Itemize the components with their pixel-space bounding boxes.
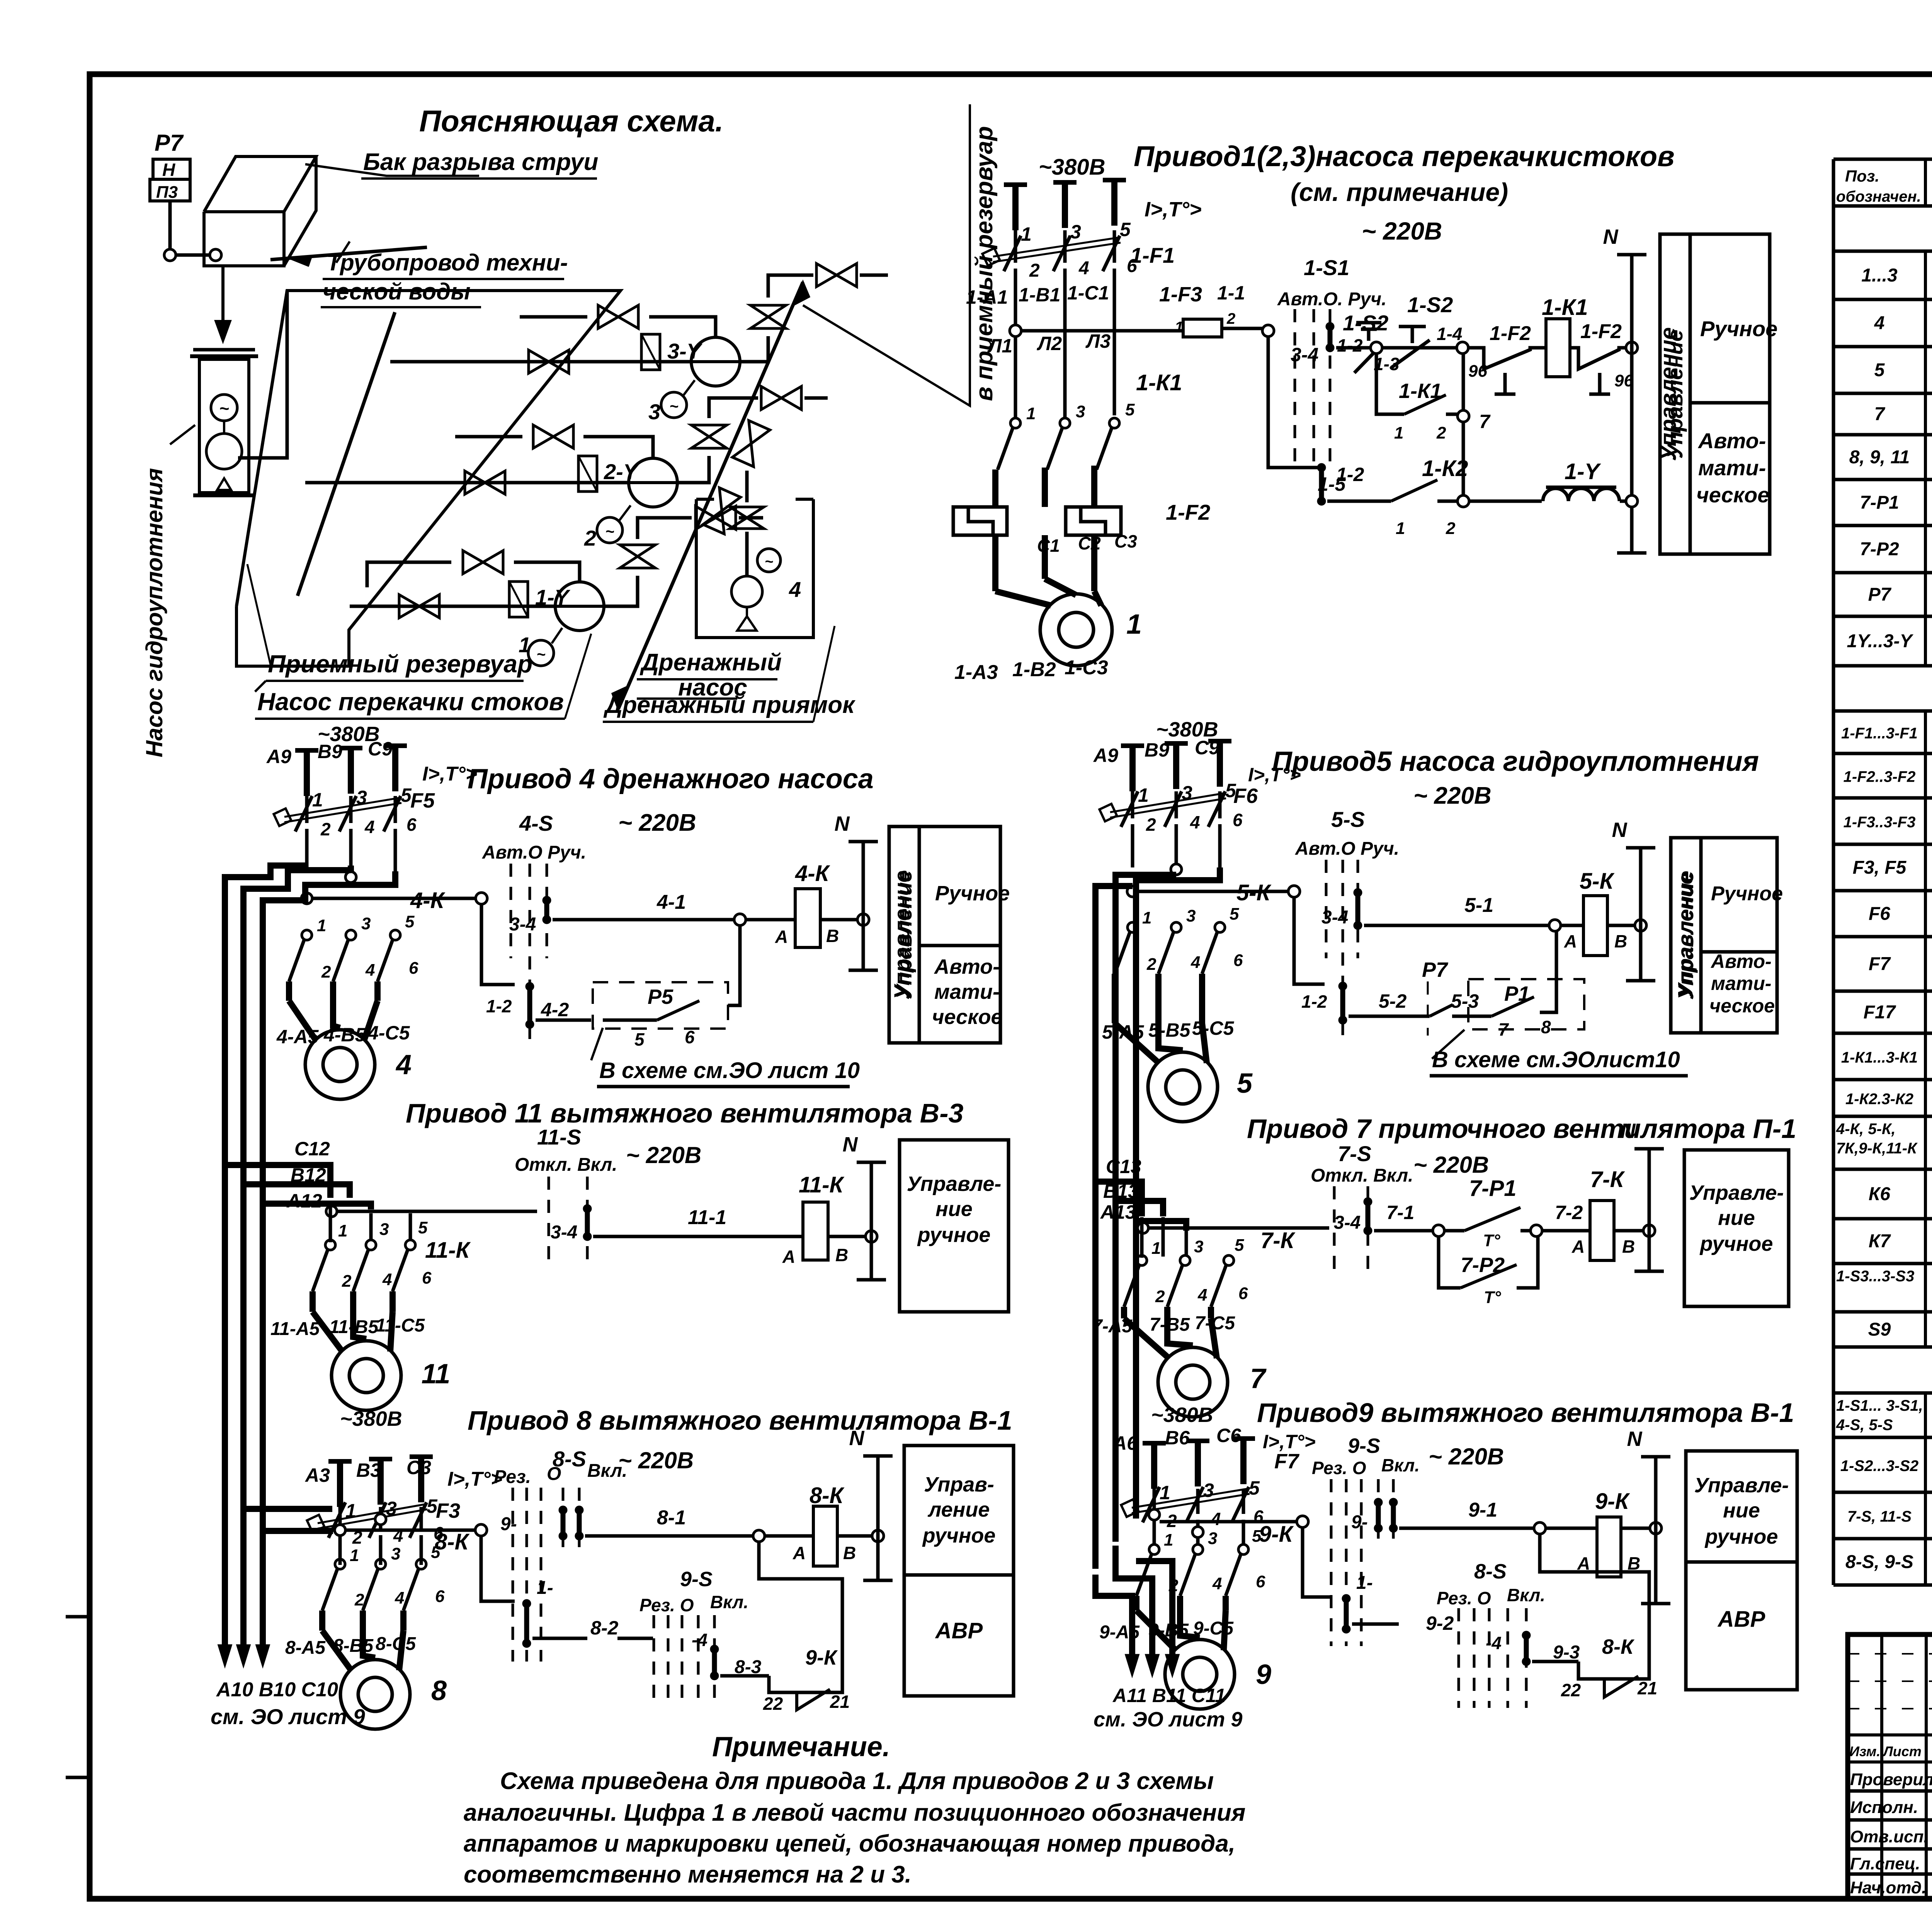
svg-text:9-: 9- (1351, 1512, 1368, 1532)
svg-text:2: 2 (1446, 519, 1456, 538)
svg-text:5: 5 (1235, 1236, 1244, 1255)
svg-text:4: 4 (364, 817, 375, 837)
components table grid (1833, 158, 1932, 161)
svg-text:4: 4 (1190, 812, 1200, 832)
svg-text:Трубопровод техни-: Трубопровод техни- (327, 250, 568, 276)
svg-text:5: 5 (634, 1029, 645, 1049)
svg-text:В13: В13 (1103, 1180, 1139, 1202)
svg-text:А: А (793, 1543, 806, 1563)
svg-text:С9: С9 (368, 738, 393, 760)
svg-text:6: 6 (1233, 810, 1243, 830)
tank Бак разрыва струи (3D box) (204, 212, 284, 266)
receiving reservoir slab (oblique box) (236, 291, 621, 666)
svg-text:1: 1 (1164, 1531, 1173, 1549)
contacts on block9 selector (1374, 1498, 1383, 1507)
svg-text:6: 6 (685, 1027, 695, 1047)
svg-text:А9: А9 (266, 746, 291, 767)
svg-text:22: 22 (1561, 1680, 1581, 1700)
svg-text:ческое: ческое (1709, 995, 1775, 1017)
svg-text:2: 2 (1155, 1287, 1165, 1306)
svg-text:7-2: 7-2 (1555, 1202, 1583, 1223)
svg-text:Примечание.: Примечание. (712, 1731, 890, 1762)
svg-text:1: 1 (1026, 404, 1036, 423)
control feed wire with fuse 1-F3 (1021, 329, 1183, 333)
svg-text:3: 3 (1076, 402, 1085, 421)
svg-text:П3: П3 (156, 183, 178, 202)
pump 3 discharge riser and valve (649, 317, 716, 337)
feed tap junction (1010, 325, 1021, 337)
svg-text:Бак разрыва струи: Бак разрыва струи (363, 149, 598, 175)
solenoid valve 1-Y (509, 582, 528, 617)
svg-text:7: 7 (1874, 404, 1886, 425)
svg-text:F5: F5 (410, 789, 435, 812)
svg-text:1-F2: 1-F2 (1166, 500, 1210, 524)
N bar block11 (870, 1162, 873, 1280)
svg-text:F3, F5: F3, F5 (1853, 857, 1907, 878)
svg-text:8: 8 (431, 1675, 447, 1706)
slab inner edge 2 (238, 291, 287, 458)
svg-text:11-К: 11-К (425, 1238, 471, 1263)
svg-text:С2: С2 (1078, 533, 1101, 553)
svg-text:9-2: 9-2 (1426, 1612, 1454, 1634)
pump 2 suction pipe with valve (305, 481, 628, 485)
svg-text:1-: 1- (1356, 1573, 1373, 1593)
feeder arrows A11 B11 C11 (1095, 1575, 1132, 1665)
svg-text:5-3: 5-3 (1451, 990, 1479, 1012)
pump 2 motor (597, 517, 622, 543)
svg-text:1-S1: 1-S1 (1304, 255, 1349, 280)
control mode box block8 (manual + AVR) (904, 1446, 1014, 1696)
thermal elements 1-F2 (992, 469, 998, 507)
pump 1 suction pipe with valve (350, 605, 556, 608)
motor symbol of hydro pump (211, 395, 237, 421)
wires to motor 11 (310, 1291, 316, 1312)
wire 8-1 (585, 1534, 753, 1538)
svg-text:1: 1 (1126, 609, 1142, 640)
svg-text:1: 1 (1160, 1482, 1170, 1503)
svg-text:6: 6 (409, 959, 418, 978)
drain pump 4 (731, 576, 762, 607)
svg-text:6: 6 (1233, 951, 1243, 970)
svg-text:7-Р2: 7-Р2 (1860, 539, 1899, 560)
contact 3-4 block4 (543, 896, 551, 905)
svg-text:Н: Н (162, 160, 175, 180)
svg-text:4-S, 5-S: 4-S, 5-S (1836, 1417, 1893, 1434)
svg-text:1: 1 (1394, 423, 1403, 442)
svg-text:4: 4 (395, 1049, 412, 1080)
svg-text:N: N (1603, 225, 1619, 248)
svg-text:В: В (843, 1543, 856, 1563)
wire 5-2 and float contact P7 (1349, 1015, 1406, 1018)
svg-text:С13: С13 (1106, 1156, 1141, 1177)
svg-text:3: 3 (361, 914, 371, 933)
svg-text:5: 5 (1230, 905, 1239, 923)
svg-text:Ручное: Ручное (1711, 883, 1783, 905)
valves on rising main (703, 488, 740, 534)
svg-text:аппаратов и маркировки цепей: аппаратов и маркировки цепей, обозначающ… (464, 1830, 1235, 1857)
svg-text:АВР: АВР (935, 1618, 983, 1643)
svg-text:9-К: 9-К (1259, 1522, 1294, 1547)
block1 phase stub L3 (1111, 180, 1117, 226)
svg-text:3-4: 3-4 (1291, 344, 1318, 366)
svg-text:2: 2 (1226, 310, 1235, 327)
contact 3-4 block5 (1354, 888, 1362, 897)
block7 feed line (1138, 1223, 1148, 1233)
svg-text:ручное: ручное (917, 1223, 991, 1247)
svg-text:4: 4 (1078, 258, 1089, 279)
branch to lower rung (1268, 337, 1321, 468)
wires to motor 9 (1133, 1596, 1139, 1611)
N bar block5 (1639, 848, 1643, 981)
svg-text:8-2: 8-2 (590, 1617, 618, 1639)
wire 5-1 (1364, 924, 1549, 927)
svg-text:~: ~ (765, 554, 773, 570)
contact 3-4 block7 (1364, 1197, 1372, 1206)
contact 1-2 block4 (526, 982, 534, 991)
svg-text:I>,Т°>: I>,Т°> (1248, 764, 1301, 786)
svg-text:Управле-: Управле- (1694, 1474, 1789, 1497)
svg-text:Отв.исп.: Отв.исп. (1850, 1827, 1929, 1846)
svg-text:7К,9-К,11-К: 7К,9-К,11-К (1836, 1140, 1918, 1157)
drain pit tank (696, 499, 813, 638)
breaker F5 (305, 796, 309, 823)
svg-text:1-2: 1-2 (1301, 992, 1327, 1012)
svg-text:3: 3 (1186, 906, 1196, 925)
svg-text:5-К: 5-К (1236, 880, 1272, 905)
svg-text:1-К1...3-К1: 1-К1...3-К1 (1841, 1049, 1918, 1066)
block9 feed taps (1149, 1509, 1160, 1520)
svg-text:~ 220В: ~ 220В (1362, 217, 1442, 245)
wires to motor 1 (992, 535, 998, 591)
block1 phase stub L2 (1062, 182, 1068, 228)
svg-text:1-В1: 1-В1 (1019, 284, 1060, 306)
svg-text:6: 6 (435, 1587, 445, 1606)
svg-text:-4: -4 (1486, 1633, 1502, 1653)
svg-text:1-С1: 1-С1 (1067, 282, 1109, 304)
svg-text:N: N (1627, 1427, 1643, 1451)
svg-text:см. ЭО лист 9: см. ЭО лист 9 (1094, 1708, 1242, 1731)
svg-text:1: 1 (1396, 519, 1405, 538)
svg-text:Управ-: Управ- (924, 1473, 994, 1496)
svg-text:2: 2 (1146, 815, 1156, 835)
svg-text:Л1: Л1 (987, 335, 1012, 357)
feeder bend into block11 (225, 1165, 330, 1198)
svg-text:1-2: 1-2 (486, 996, 512, 1016)
block9 contactor contacts 9-K (1149, 1544, 1159, 1554)
svg-text:В12: В12 (291, 1164, 326, 1186)
svg-text:1-: 1- (537, 1578, 553, 1598)
svg-text:К6: К6 (1869, 1184, 1891, 1204)
svg-text:11-С5: 11-С5 (376, 1315, 425, 1336)
block4 lower branch (481, 904, 515, 985)
svg-text:1-4: 1-4 (1437, 324, 1462, 344)
solenoid valve 3-Y (641, 334, 660, 370)
svg-text:2: 2 (342, 1272, 352, 1291)
branch to drain pit (690, 516, 694, 520)
breaker 1-F1 (1014, 230, 1017, 263)
svg-text:8-S, 9-S: 8-S, 9-S (1845, 1552, 1913, 1572)
svg-text:1-В2: 1-В2 (1012, 658, 1056, 681)
svg-text:8-С5: 8-С5 (376, 1634, 416, 1654)
svg-text:С3: С3 (1114, 531, 1137, 551)
svg-text:9-К: 9-К (1595, 1489, 1630, 1514)
svg-text:I>,Т°>: I>,Т°> (1263, 1431, 1316, 1452)
feeder arrows A10 B10 C10 (219, 1645, 231, 1665)
svg-text:6: 6 (1256, 1572, 1265, 1591)
svg-text:(см. примечание): (см. примечание) (1291, 178, 1508, 206)
svg-text:4: 4 (1190, 953, 1200, 972)
svg-text:21: 21 (1637, 1678, 1657, 1698)
wire 5-3 and contact P1 in dashed box (1452, 1015, 1492, 1018)
hydro-seal pump unit (193, 348, 255, 352)
svg-text:F3: F3 (436, 1499, 460, 1522)
svg-text:3-4: 3-4 (1334, 1213, 1361, 1233)
block9 phase stubs (1151, 1443, 1157, 1489)
breaker F3 (338, 1507, 342, 1529)
svg-text:АВР: АВР (1717, 1607, 1765, 1632)
breaker F6 (1131, 791, 1134, 818)
svg-text:3: 3 (1070, 221, 1081, 243)
contact 1-2 block5 (1338, 982, 1347, 990)
svg-text:7-S, 11-S: 7-S, 11-S (1847, 1508, 1912, 1525)
motor M7 (1158, 1347, 1228, 1417)
block5 phase stubs (1129, 746, 1136, 791)
svg-text:1: 1 (350, 1546, 359, 1565)
svg-text:F7: F7 (1869, 954, 1891, 975)
svg-text:S9: S9 (1868, 1320, 1891, 1340)
svg-text:Авто-: Авто- (1697, 429, 1766, 453)
pump 1 to header check valve (604, 576, 638, 606)
dashed box P5 (level switch) (593, 982, 728, 1029)
selector contact 1-2 lower (1317, 463, 1326, 472)
block8 lower branch via selector 9-S (481, 1536, 515, 1601)
svg-text:мати-: мати- (1711, 973, 1771, 994)
svg-text:F17: F17 (1864, 1002, 1896, 1023)
svg-text:2: 2 (1436, 423, 1446, 442)
svg-text:7-S: 7-S (1338, 1141, 1371, 1166)
main pump 2 (629, 458, 677, 507)
block9 lower branch (1303, 1527, 1331, 1597)
svg-text:3: 3 (391, 1544, 400, 1563)
svg-text:4: 4 (382, 1270, 392, 1289)
svg-text:11-S: 11-S (537, 1125, 581, 1149)
svg-text:1-С3: 1-С3 (1065, 656, 1108, 679)
svg-text:Авт.О Руч.: Авт.О Руч. (1295, 838, 1399, 859)
svg-text:А11 В11 С11: А11 В11 С11 (1112, 1685, 1226, 1706)
svg-text:1-А3: 1-А3 (954, 661, 998, 684)
pump circle of hydro pump (206, 434, 242, 469)
svg-text:Проверил: Проверил (1850, 1770, 1932, 1789)
svg-text:Т°: Т° (1483, 1231, 1500, 1250)
svg-text:11-А5: 11-А5 (270, 1319, 320, 1339)
svg-text:3-Y: 3-Y (667, 339, 703, 363)
svg-text:Схема приведена для привода: Схема приведена для привода 1. Для приво… (500, 1768, 1214, 1794)
svg-text:~ 220В: ~ 220В (618, 810, 696, 836)
svg-text:Вкл.: Вкл. (1507, 1585, 1545, 1605)
svg-text:Ручное: Ручное (1700, 316, 1777, 341)
N bar block9 (1654, 1457, 1658, 1604)
svg-text:С1: С1 (1037, 536, 1060, 556)
svg-text:1-А1: 1-А1 (966, 286, 1008, 308)
svg-text:3-4: 3-4 (509, 914, 536, 935)
fuse 1-F3 (1183, 319, 1222, 337)
drain pump 4 motor (757, 549, 781, 572)
title block left columns (1880, 1634, 1883, 1899)
svg-text:4-S: 4-S (519, 811, 553, 835)
svg-text:Насос перекачки стоков: Насос перекачки стоков (257, 688, 564, 716)
svg-text:1: 1 (1142, 908, 1151, 927)
block11 contactor contacts 11-K (325, 1240, 335, 1250)
svg-text:1: 1 (338, 1221, 347, 1240)
svg-text:7: 7 (1479, 411, 1491, 432)
wires to motor 4 (286, 981, 292, 1001)
svg-text:1...3: 1...3 (1861, 265, 1898, 286)
svg-text:А13: А13 (1100, 1201, 1136, 1223)
pump 3 discharge check valve to riser pipe (740, 336, 768, 362)
control mode box block1 (1660, 234, 1770, 554)
svg-text:7-К: 7-К (1260, 1228, 1296, 1253)
contacts on 8-S (559, 1506, 567, 1514)
svg-text:Авт.О. Руч.: Авт.О. Руч. (1277, 289, 1386, 310)
svg-text:А: А (1571, 1236, 1585, 1257)
svg-text:1-К1: 1-К1 (1136, 370, 1182, 395)
feeder to blocks 7/9 from block5 (1095, 886, 1133, 1569)
svg-text:~ 220В: ~ 220В (1413, 782, 1492, 809)
svg-text:4: 4 (1211, 1509, 1221, 1529)
svg-text:7-К: 7-К (1590, 1167, 1625, 1192)
svg-text:8: 8 (1541, 1017, 1551, 1037)
block5 contactor contacts 5-K (1128, 922, 1138, 932)
title block signature rows (1848, 1789, 1932, 1793)
svg-text:1-S1... 3-S1,: 1-S1... 3-S1, (1836, 1397, 1923, 1414)
svg-text:В схеме см.ЭО лист 10: В схеме см.ЭО лист 10 (599, 1058, 860, 1083)
svg-text:7: 7 (1498, 1019, 1509, 1039)
svg-text:N: N (1612, 818, 1628, 842)
svg-text:1-К2: 1-К2 (1422, 456, 1468, 481)
svg-text:ческое: ческое (932, 1005, 1003, 1029)
svg-text:1-S3...3-S3: 1-S3...3-S3 (1836, 1268, 1914, 1285)
svg-text:2: 2 (321, 963, 331, 981)
svg-text:Управле-: Управле- (907, 1172, 1002, 1196)
svg-text:2-Y: 2-Y (604, 459, 639, 484)
svg-text:8-1: 8-1 (657, 1507, 686, 1529)
svg-text:К7: К7 (1869, 1231, 1891, 1252)
svg-text:5-С5: 5-С5 (1192, 1017, 1235, 1039)
svg-text:ручное: ручное (922, 1524, 996, 1547)
wires to motor 7 (1121, 1307, 1127, 1318)
svg-text:1-F2..3-F2: 1-F2..3-F2 (1844, 769, 1916, 786)
control mode box block5 (1671, 838, 1777, 1033)
svg-text:Ручное: Ручное (935, 882, 1010, 905)
svg-text:~ 220В: ~ 220В (626, 1142, 701, 1168)
block8 phase stubs (337, 1461, 343, 1507)
svg-text:4: 4 (1197, 1286, 1207, 1304)
svg-text:9-S: 9-S (1348, 1434, 1380, 1458)
svg-text:1-Y: 1-Y (1565, 459, 1602, 484)
svg-text:Привод9 вытяжного вентилятора: Привод9 вытяжного вентилятора В-1 (1257, 1398, 1794, 1428)
svg-text:мати-: мати- (1698, 456, 1766, 480)
svg-text:5: 5 (1249, 1477, 1260, 1499)
svg-text:1: 1 (317, 916, 326, 935)
slab inner edge 1 (298, 312, 395, 596)
pump 3 suction pipe with valve (390, 360, 692, 364)
svg-text:5-В5: 5-В5 (1148, 1019, 1191, 1041)
svg-text:О: О (547, 1464, 561, 1484)
svg-text:Л3: Л3 (1085, 330, 1111, 352)
svg-text:4-К, 5-К,: 4-К, 5-К, (1836, 1121, 1896, 1138)
motor M9 (1165, 1639, 1235, 1709)
svg-text:F6: F6 (1233, 784, 1258, 808)
svg-text:F7: F7 (1274, 1450, 1300, 1473)
svg-text:ние: ние (1718, 1206, 1755, 1230)
svg-text:~ 220В: ~ 220В (1429, 1444, 1504, 1469)
svg-text:~380В: ~380В (1151, 1403, 1213, 1427)
svg-text:Поясняющая схема.: Поясняющая схема. (419, 104, 723, 138)
svg-text:аналогичны. Цифра 1 в левой: аналогичны. Цифра 1 в левой части позици… (464, 1799, 1245, 1826)
svg-text:F6: F6 (1869, 904, 1890, 924)
svg-text:21: 21 (830, 1692, 850, 1712)
svg-text:В: В (835, 1245, 848, 1265)
svg-text:В3: В3 (356, 1459, 381, 1481)
svg-text:11-1: 11-1 (688, 1206, 726, 1229)
svg-text:А: А (775, 927, 788, 947)
svg-text:2: 2 (354, 1590, 364, 1609)
svg-text:1-S2...3-S2: 1-S2...3-S2 (1840, 1458, 1918, 1475)
svg-text:4: 4 (365, 961, 375, 980)
svg-text:5: 5 (418, 1218, 428, 1237)
svg-text:4: 4 (789, 577, 801, 602)
svg-text:1: 1 (1021, 223, 1032, 245)
svg-text:Управление: Управление (889, 871, 914, 1000)
svg-text:Р7: Р7 (155, 130, 184, 156)
svg-text:А3: А3 (304, 1464, 330, 1486)
svg-text:С12: С12 (294, 1138, 330, 1160)
breaker F7 (1153, 1489, 1156, 1514)
svg-text:8-К: 8-К (810, 1483, 845, 1508)
svg-text:6: 6 (422, 1269, 432, 1287)
pole continuation wires (1014, 321, 1017, 419)
svg-text:В схеме см.ЭОлист10: В схеме см.ЭОлист10 (1432, 1047, 1680, 1072)
svg-text:4-К: 4-К (410, 888, 446, 913)
svg-text:3: 3 (379, 1220, 389, 1239)
svg-text:В9: В9 (318, 741, 342, 762)
svg-text:4-К: 4-К (795, 861, 830, 886)
svg-text:5-S: 5-S (1331, 807, 1365, 832)
svg-text:Вкл.: Вкл. (710, 1592, 748, 1612)
control mode box block9 (manual + AVR) (1686, 1451, 1797, 1690)
rising main pipe to receiving reservoir (618, 282, 803, 709)
svg-text:Изм.: Изм. (1849, 1743, 1880, 1759)
svg-text:Л2: Л2 (1037, 333, 1062, 354)
svg-text:8-А5: 8-А5 (285, 1638, 326, 1658)
svg-text:А6: А6 (1112, 1432, 1138, 1454)
pump 3 motor (661, 392, 687, 418)
selector contact 3-4 (1326, 322, 1334, 331)
svg-text:9-S: 9-S (680, 1568, 713, 1591)
svg-text:1-Y: 1-Y (535, 585, 571, 609)
svg-text:6: 6 (1238, 1284, 1248, 1303)
svg-text:Поз.: Поз. (1845, 167, 1879, 185)
control mode box block11 (900, 1140, 1009, 1312)
svg-text:Привод 8 вытяжного вентилятора: Привод 8 вытяжного вентилятора В-1 (468, 1405, 1012, 1435)
svg-text:Привод1(2,3)насоса перекачкист: Привод1(2,3)насоса перекачкистоков (1134, 140, 1675, 172)
svg-text:5: 5 (405, 912, 415, 931)
block4 phase stubs (304, 750, 310, 796)
svg-text:Р7: Р7 (1868, 585, 1892, 605)
pump 2 to header check valve (677, 456, 709, 483)
control mode box block7 (1684, 1150, 1789, 1306)
svg-text:Лист: Лист (1882, 1743, 1922, 1759)
